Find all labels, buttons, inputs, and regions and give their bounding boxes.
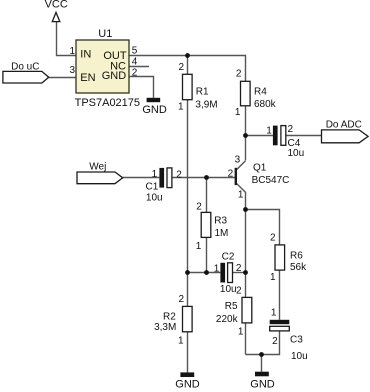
svg-text:BC547C: BC547C: [252, 175, 290, 186]
svg-text:2: 2: [196, 202, 202, 213]
svg-text:GND: GND: [102, 70, 127, 82]
svg-text:2: 2: [270, 232, 276, 243]
svg-text:1: 1: [196, 241, 202, 252]
svg-text:680k: 680k: [254, 99, 277, 110]
svg-text:VCC: VCC: [45, 0, 68, 11]
svg-text:3: 3: [235, 155, 241, 166]
svg-text:Q1: Q1: [253, 163, 267, 174]
svg-text:C1: C1: [146, 181, 159, 192]
svg-text:IN: IN: [80, 49, 91, 61]
svg-text:2: 2: [236, 68, 242, 79]
svg-text:U1: U1: [98, 28, 112, 40]
svg-text:TPS7A02175: TPS7A02175: [75, 97, 140, 109]
svg-text:Do ADC: Do ADC: [326, 120, 362, 131]
svg-text:1M: 1M: [215, 228, 229, 239]
svg-text:GND: GND: [250, 379, 275, 391]
svg-text:2: 2: [178, 294, 184, 305]
svg-text:R6: R6: [290, 251, 303, 262]
svg-text:Wej: Wej: [89, 161, 106, 172]
svg-text:2: 2: [178, 62, 184, 73]
svg-text:GND: GND: [142, 104, 167, 116]
svg-text:5: 5: [132, 46, 138, 57]
svg-text:1: 1: [152, 169, 158, 180]
svg-text:220k: 220k: [216, 314, 239, 325]
svg-text:2: 2: [272, 336, 278, 347]
svg-text:1: 1: [266, 125, 272, 136]
svg-text:1: 1: [271, 307, 277, 318]
svg-text:10u: 10u: [146, 193, 163, 204]
svg-text:2: 2: [236, 286, 242, 297]
svg-text:R2: R2: [163, 311, 176, 322]
svg-text:2: 2: [288, 124, 294, 135]
svg-text:C2: C2: [222, 252, 235, 263]
svg-text:1: 1: [178, 335, 184, 346]
svg-text:3: 3: [69, 65, 75, 76]
svg-text:EN: EN: [80, 72, 95, 84]
svg-text:3,9M: 3,9M: [195, 100, 217, 111]
svg-text:10u: 10u: [291, 351, 308, 362]
svg-text:R4: R4: [254, 87, 267, 98]
svg-text:2: 2: [132, 67, 138, 78]
svg-text:R3: R3: [214, 216, 227, 227]
svg-text:2: 2: [236, 263, 242, 274]
svg-text:1: 1: [238, 327, 244, 338]
svg-text:2: 2: [228, 169, 234, 180]
svg-text:1: 1: [214, 263, 220, 274]
svg-text:1: 1: [270, 272, 276, 283]
svg-text:2: 2: [176, 170, 182, 181]
svg-text:10u: 10u: [220, 284, 237, 295]
svg-text:R5: R5: [225, 301, 238, 312]
svg-text:R1: R1: [196, 87, 209, 98]
svg-text:C3: C3: [290, 335, 303, 346]
svg-text:1: 1: [178, 102, 184, 113]
svg-text:56k: 56k: [290, 262, 307, 273]
svg-text:1: 1: [69, 46, 75, 57]
svg-text:GND: GND: [175, 379, 200, 391]
svg-text:4: 4: [132, 57, 138, 68]
svg-text:1: 1: [238, 190, 244, 201]
svg-text:1: 1: [235, 107, 241, 118]
svg-text:3,3M: 3,3M: [154, 322, 176, 333]
svg-text:10u: 10u: [288, 148, 305, 159]
svg-text:Do uC: Do uC: [11, 61, 39, 72]
